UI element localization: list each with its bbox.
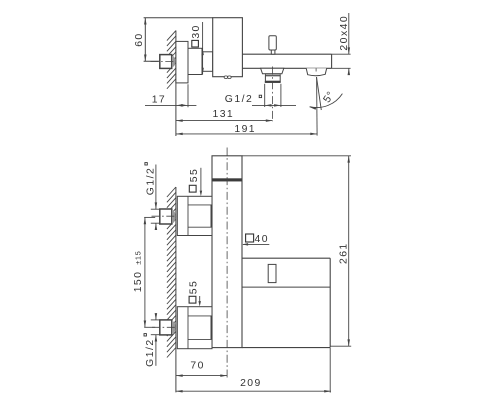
centerline wall union (upper view) bbox=[151, 61, 178, 63]
upper inlet union nut bbox=[160, 209, 172, 224]
dimension G1/2 (upper inlet) bbox=[151, 208, 160, 210]
adapter block (upper view) bbox=[202, 52, 213, 72]
svg-text:70: 70 bbox=[190, 361, 204, 372]
svg-text:G1/2: G1/2 bbox=[225, 94, 254, 105]
handshower outlet thread bbox=[265, 76, 280, 81]
svg-text:209: 209 bbox=[240, 378, 262, 389]
extension line, top of body to 60-dim bbox=[144, 17, 213, 19]
svg-text:±15: ±15 bbox=[134, 251, 143, 265]
dimension 20x40 (bar section) bbox=[332, 53, 351, 55]
label 55 (upper escutcheon) bbox=[189, 185, 196, 192]
wall line (lower view) bbox=[175, 187, 177, 392]
dimension 191 (wall to spout axis) bbox=[176, 133, 317, 135]
svg-text:20x40: 20x40 bbox=[339, 15, 350, 51]
body bottom screws detail bbox=[224, 76, 228, 79]
dimension 131 (wall to handshower axis) bbox=[176, 120, 273, 122]
dimension 30 (cartridge neck) bbox=[202, 22, 204, 75]
svg-text:30: 30 bbox=[191, 24, 202, 38]
svg-text:G1/2: G1/2 bbox=[145, 167, 156, 196]
mixer body column (lower view) bbox=[212, 156, 242, 348]
wall line (upper view) bbox=[175, 31, 177, 137]
neck connector (upper view) bbox=[188, 48, 202, 74]
wall hatching (lower view) bbox=[167, 187, 176, 197]
upper escutcheon (55 square) bbox=[177, 196, 212, 235]
centerline handshower outlet bbox=[272, 67, 274, 122]
escutcheon plate (upper view) bbox=[176, 41, 188, 83]
dimension 70 (wall to body axis) bbox=[176, 375, 227, 377]
square symbol of 30 label bbox=[192, 40, 199, 47]
svg-text:40: 40 bbox=[255, 234, 269, 245]
spout plate (lower view) bbox=[242, 257, 330, 259]
lower inlet union nut bbox=[160, 320, 172, 335]
wall union nut (upper view) bbox=[160, 55, 172, 69]
extension line top of body to 261-dim bbox=[242, 155, 351, 157]
svg-text:150: 150 bbox=[133, 271, 144, 293]
wall hatching (upper view) bbox=[167, 31, 176, 41]
label 40 (spout section) bbox=[246, 234, 254, 242]
diverter knob bbox=[269, 36, 276, 50]
dimension 261 (overall height) bbox=[330, 345, 351, 347]
diverter knob stem bbox=[271, 50, 275, 54]
5 degree spout angle bbox=[316, 77, 319, 136]
extension line plate right edge bbox=[329, 348, 331, 393]
centerline lower inlet bbox=[152, 326, 177, 328]
dimension 150 (inlet spacing) bbox=[144, 216, 155, 218]
dimension line 209 bbox=[176, 390, 331, 392]
svg-text:55: 55 bbox=[189, 280, 200, 294]
svg-text:131: 131 bbox=[213, 109, 235, 120]
dimension G1/2 (handshower outlet) bbox=[264, 84, 266, 107]
label 55 (lower escutcheon) bbox=[189, 296, 196, 303]
centerline body column bbox=[226, 148, 228, 379]
handshower outlet collar bbox=[265, 74, 280, 76]
svg-text:60: 60 bbox=[134, 32, 145, 46]
svg-text:G1/2: G1/2 bbox=[145, 338, 156, 367]
dimension 17 (wall to escutcheon) bbox=[187, 84, 189, 107]
mixer body (upper view) bbox=[213, 18, 243, 77]
handle lever band bbox=[212, 179, 242, 182]
svg-text:55: 55 bbox=[189, 168, 200, 182]
handshower outlet flange bbox=[261, 68, 284, 74]
svg-text:191: 191 bbox=[234, 124, 256, 135]
handshower outlet nut band bbox=[265, 81, 281, 82]
lower escutcheon (55 square) bbox=[177, 307, 212, 349]
dimension G1/2 (lower inlet) bbox=[151, 319, 160, 321]
centerline upper inlet bbox=[152, 215, 178, 217]
tub spout outlet (upper view) bbox=[306, 68, 327, 75]
svg-text:261: 261 bbox=[339, 242, 350, 264]
svg-text:17: 17 bbox=[152, 94, 166, 105]
diverter slot on plate bbox=[268, 264, 276, 282]
spout bar (upper view) bbox=[242, 53, 331, 55]
dimension 60 (vertical, upper left) bbox=[144, 18, 146, 62]
